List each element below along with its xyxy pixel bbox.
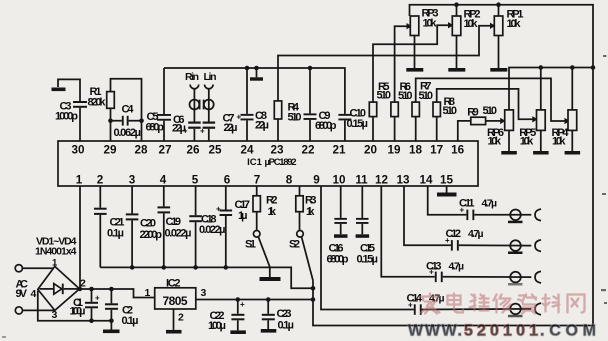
svg-text:C4: C4 [122,103,135,115]
svg-text:WWW.: WWW. [408,323,462,340]
svg-text:820k: 820k [88,97,107,109]
svg-text:R2: R2 [266,195,278,207]
svg-text:1µ: 1µ [238,210,248,222]
svg-text:.COM: .COM [540,323,596,340]
svg-text:C19: C19 [166,216,182,228]
svg-text:30: 30 [71,143,85,156]
svg-text:10k: 10k [507,18,522,30]
svg-text:µPC1892: µPC1892 [265,157,297,168]
svg-text:16: 16 [451,143,465,156]
svg-text:28: 28 [134,143,148,156]
svg-text:C20: C20 [140,218,156,230]
svg-text:680p: 680p [146,122,165,134]
svg-text:6800p: 6800p [327,254,349,266]
svg-text:10k: 10k [464,18,479,30]
svg-text:+: + [429,268,434,277]
svg-text:22µ: 22µ [255,120,269,132]
svg-text:510: 510 [419,90,434,102]
svg-text:C17: C17 [235,199,251,211]
svg-text:+: + [445,236,450,245]
svg-text:12: 12 [375,174,389,187]
svg-text:14: 14 [419,174,433,187]
svg-text:0.022µ: 0.022µ [199,224,226,236]
svg-text:Lin: Lin [204,71,217,83]
svg-text:IC1: IC1 [247,157,263,168]
svg-text:3: 3 [129,174,136,187]
svg-text:2: 2 [97,174,104,187]
svg-text:510: 510 [377,89,392,101]
svg-text:R9: R9 [467,107,479,119]
svg-text:0.15µ: 0.15µ [357,253,379,265]
svg-text:1k: 1k [306,206,315,218]
svg-text:23: 23 [270,143,284,156]
svg-text:18: 18 [409,143,423,156]
svg-text:8: 8 [286,174,293,187]
svg-text:22µ: 22µ [224,122,238,134]
svg-text:3: 3 [201,287,207,299]
svg-text:2: 2 [80,278,86,290]
svg-text:510: 510 [483,105,498,117]
svg-text:IC2: IC2 [166,277,181,289]
svg-text:26: 26 [186,143,200,156]
svg-text:17: 17 [430,143,443,156]
svg-text:5: 5 [192,174,199,187]
svg-text:24: 24 [240,143,254,156]
svg-text:19: 19 [387,143,401,156]
svg-text:R3: R3 [305,195,317,207]
svg-text:10k: 10k [552,135,566,147]
svg-text:4.7µ: 4.7µ [468,228,484,240]
svg-text:1k: 1k [268,206,277,218]
svg-text:11: 11 [355,174,368,187]
svg-text:+: + [216,205,221,214]
svg-text:2200p: 2200p [140,229,163,241]
svg-text:4: 4 [160,174,167,187]
svg-text:25: 25 [208,143,222,156]
svg-text:10: 10 [332,174,346,187]
svg-text:510: 510 [288,111,302,123]
svg-text:3: 3 [52,309,58,321]
svg-text:+: + [95,294,100,303]
svg-text:22: 22 [301,143,315,156]
svg-text:1: 1 [76,174,83,187]
svg-text:C23: C23 [277,308,292,320]
svg-text:4.7µ: 4.7µ [482,198,498,210]
svg-text:510: 510 [398,90,413,102]
svg-text:0.15µ: 0.15µ [347,118,369,130]
svg-text:20: 20 [364,143,378,156]
svg-text:C16: C16 [329,242,344,254]
svg-text:10k: 10k [423,18,438,30]
svg-text:+: + [240,300,245,309]
svg-text:1: 1 [145,287,151,299]
svg-text:0.1µ: 0.1µ [122,315,139,327]
svg-text:2: 2 [178,312,184,324]
svg-text:13: 13 [396,174,410,187]
svg-text:9: 9 [313,174,320,187]
svg-text:0.1µ: 0.1µ [278,320,295,332]
svg-text:6800p: 6800p [315,120,337,132]
svg-text:+: + [183,127,188,136]
svg-text:0.1µ: 0.1µ [107,228,124,240]
svg-text:4: 4 [31,288,37,300]
svg-text:15: 15 [440,174,454,187]
svg-text:10k: 10k [520,135,534,147]
svg-text:S2: S2 [289,238,300,250]
svg-text:+: + [408,301,413,310]
svg-text:29: 29 [103,143,117,156]
svg-text:+: + [237,113,242,122]
svg-text:21: 21 [332,143,346,156]
svg-text:+: + [460,206,465,215]
svg-text:0.022µ: 0.022µ [165,228,192,240]
svg-text:S1: S1 [245,238,256,250]
svg-text:0.062µ: 0.062µ [114,127,142,139]
svg-text:100µ: 100µ [208,320,226,332]
svg-text:7: 7 [254,174,261,187]
svg-text:100µ: 100µ [70,305,86,317]
svg-text:+: + [200,127,205,136]
svg-text:1N4001x4: 1N4001x4 [35,246,77,258]
svg-text:C21: C21 [110,216,125,228]
svg-text:27: 27 [158,143,171,156]
svg-text:510: 510 [443,105,458,117]
svg-text:7805: 7805 [163,294,188,308]
svg-text:1000p: 1000p [55,111,78,123]
svg-text:1: 1 [52,258,58,269]
svg-text:4.7µ: 4.7µ [449,260,465,272]
svg-text:6: 6 [224,174,231,187]
svg-text:Rin: Rin [185,71,199,83]
svg-text:9V: 9V [16,288,28,300]
svg-text:10k: 10k [488,135,502,147]
